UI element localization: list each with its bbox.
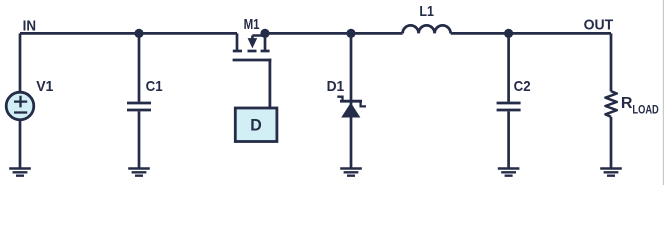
svg-text:C2: C2: [514, 78, 531, 95]
wire V1 branch top: [19, 33, 22, 92]
node junction dot D1: [346, 29, 355, 38]
svg-text:C1: C1: [146, 78, 163, 95]
ground under C2: [498, 169, 520, 176]
svg-text:M1: M1: [244, 16, 260, 33]
inductor L1: [403, 25, 451, 33]
ground under V1: [9, 169, 31, 176]
voltage source V1: [6, 92, 34, 120]
driver block D: [235, 108, 277, 142]
ground under C1: [128, 169, 150, 176]
diode D1 schottky: [340, 100, 362, 103]
ground under RLOAD: [600, 169, 622, 176]
node junction dot C2: [504, 29, 513, 38]
svg-text:V1: V1: [36, 78, 53, 95]
capacitor C2: [497, 103, 521, 110]
wire top rail right segment: [451, 32, 611, 35]
transistor M1: [233, 33, 272, 60]
capacitor C1: [127, 103, 151, 110]
svg-text:D1: D1: [327, 78, 345, 95]
svg-text:D: D: [250, 115, 262, 134]
resistor RLOAD: [605, 91, 616, 117]
ground under D1: [340, 169, 362, 176]
svg-text:L1: L1: [419, 3, 434, 20]
wire top rail left segment: [20, 32, 237, 35]
wire RLOAD to ground: [610, 117, 613, 169]
svg-text:LOAD: LOAD: [632, 103, 659, 117]
svg-text:R: R: [621, 95, 633, 112]
wire top rail mid segment: [265, 32, 403, 35]
wire D1 branch: [350, 33, 353, 168]
wire M1 gate to driver D: [268, 59, 271, 108]
wire V1 to ground: [19, 120, 22, 169]
svg-text:OUT: OUT: [584, 17, 614, 34]
wire C2 to ground: [507, 111, 510, 168]
wire OUT branch top: [610, 33, 613, 91]
wire C2 branch top: [507, 33, 510, 101]
node junction dot M1 drain: [260, 29, 269, 38]
wire C1 to ground: [138, 111, 141, 168]
node junction dot C1: [134, 29, 143, 38]
page divider line right edge: [662, 0, 664, 185]
wire C1 branch top: [138, 33, 141, 101]
svg-text:IN: IN: [23, 17, 36, 34]
